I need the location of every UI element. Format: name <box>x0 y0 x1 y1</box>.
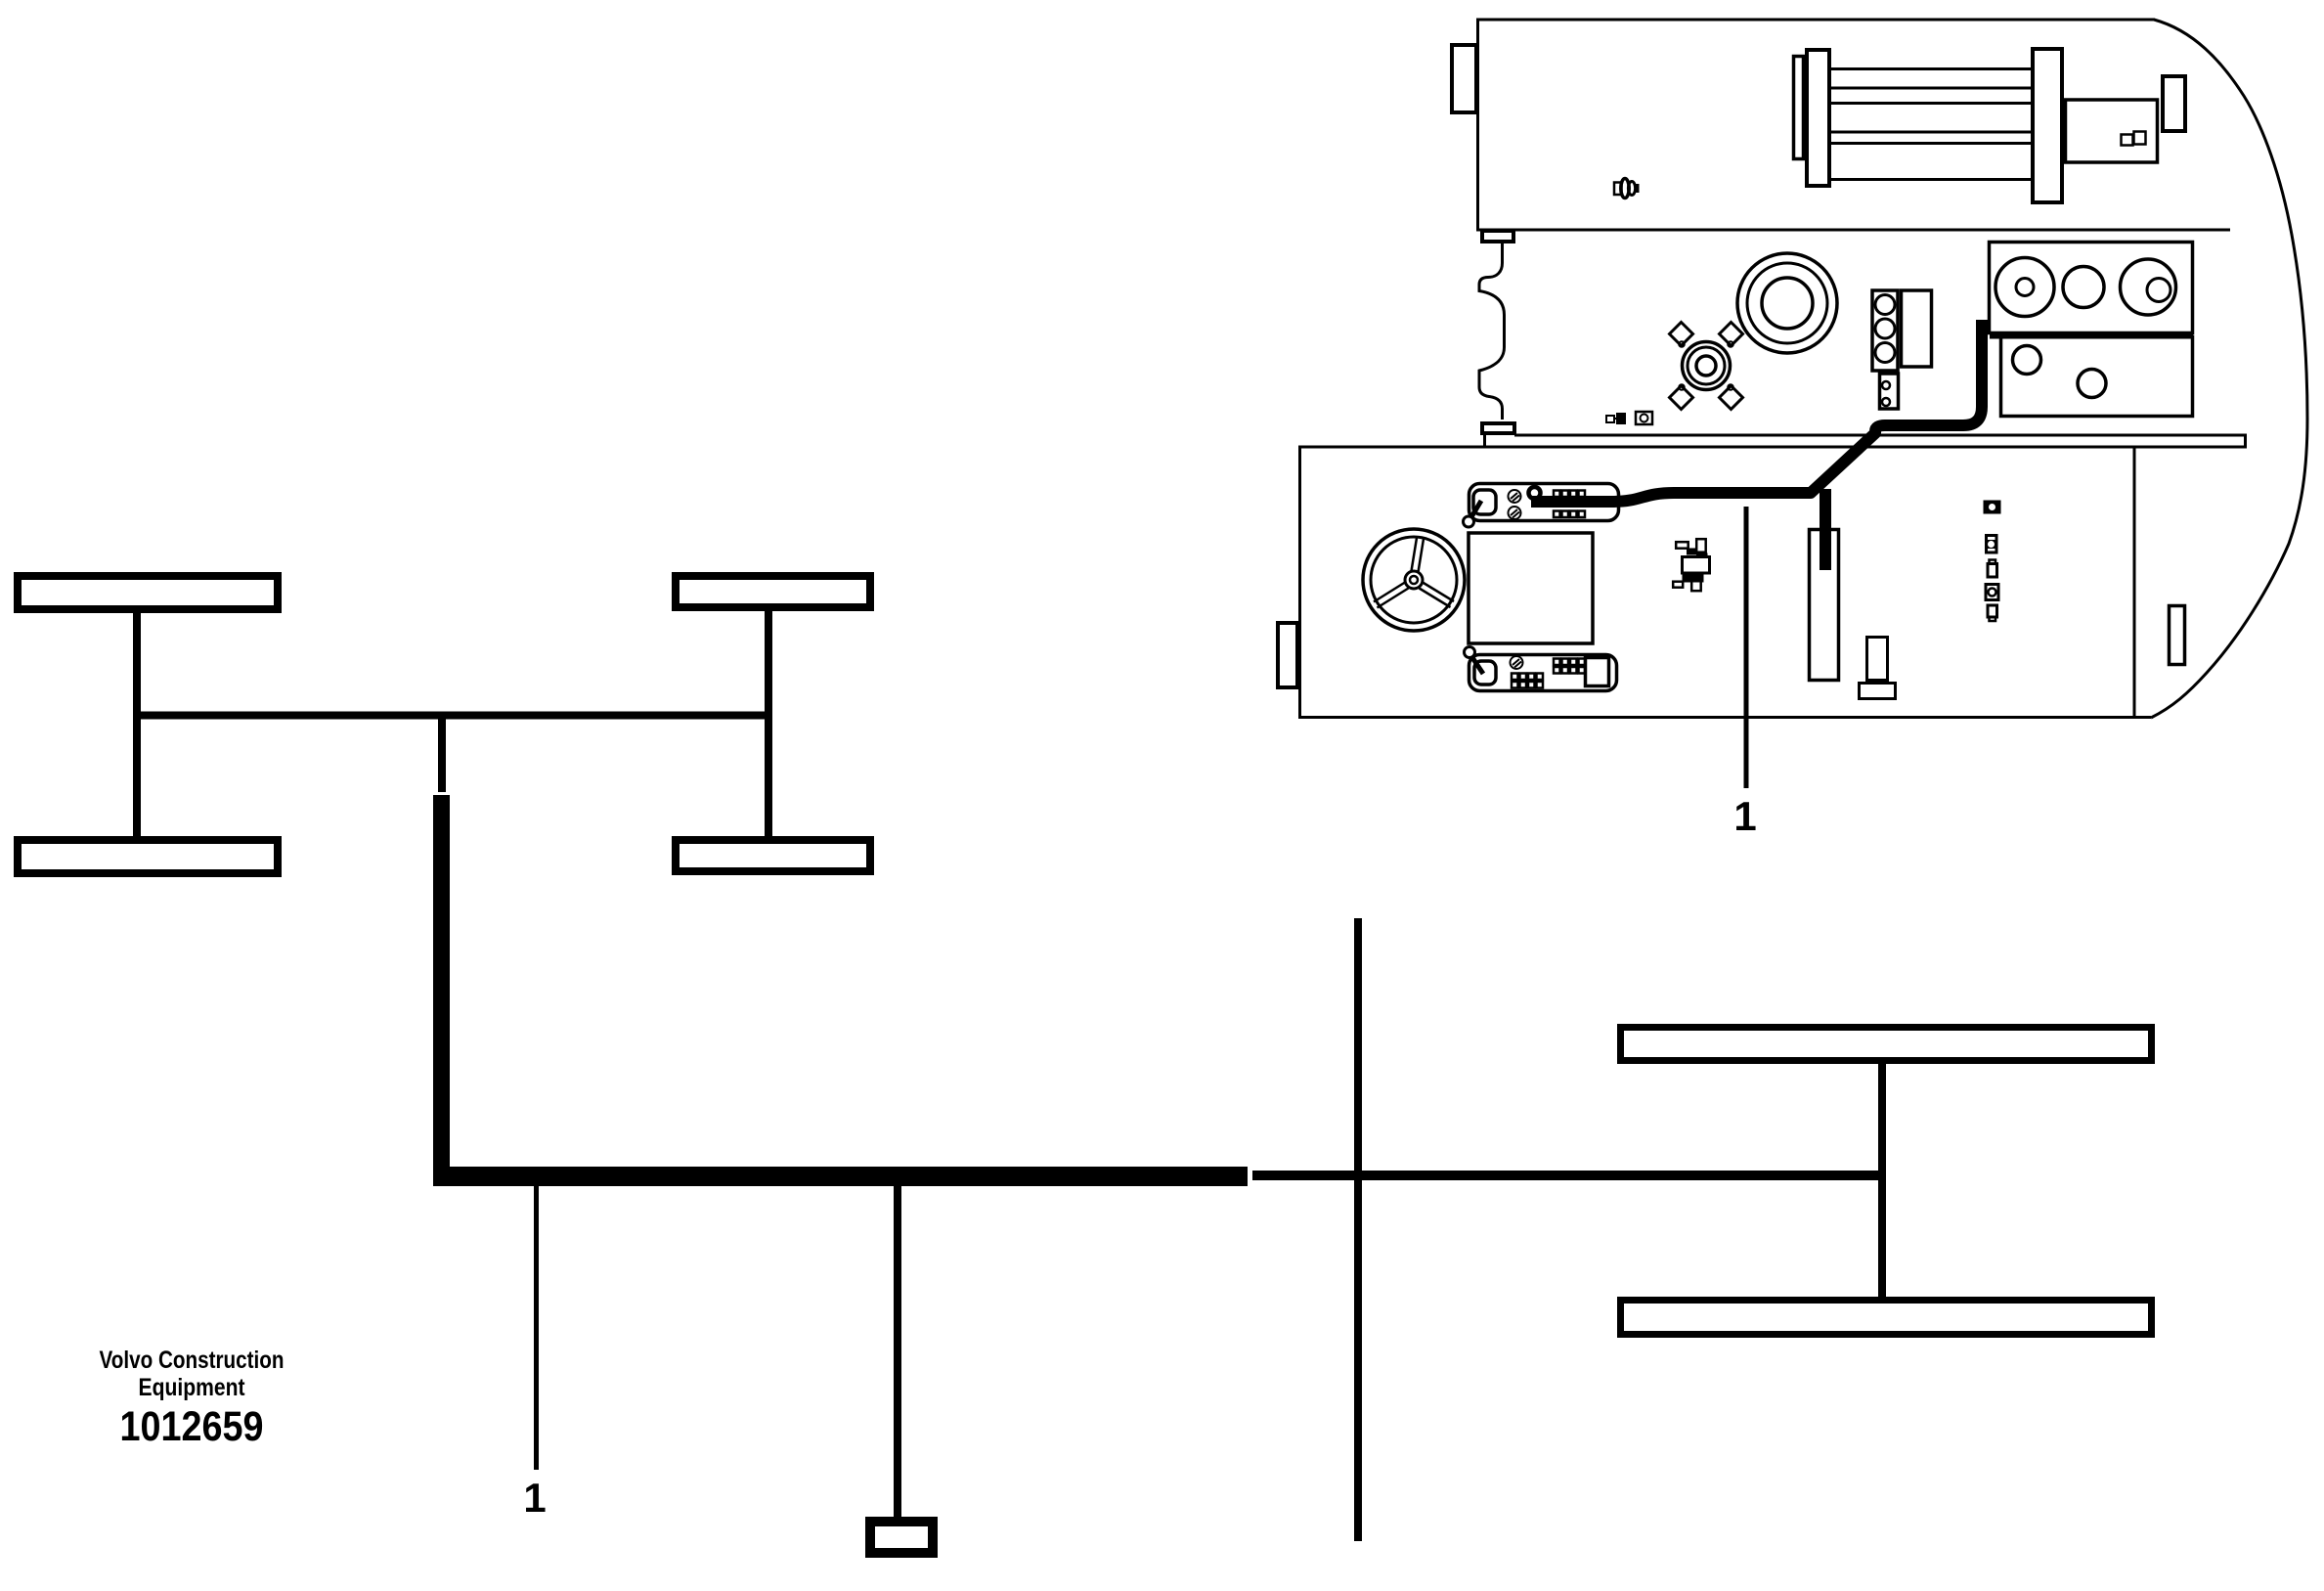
svg-text:Volvo Construction: Volvo Construction <box>100 1347 285 1374</box>
svg-text:1: 1 <box>523 1475 546 1521</box>
svg-text:Equipment: Equipment <box>139 1374 246 1401</box>
svg-text:1: 1 <box>1733 793 1756 839</box>
svg-text:1012659: 1012659 <box>120 1403 264 1450</box>
